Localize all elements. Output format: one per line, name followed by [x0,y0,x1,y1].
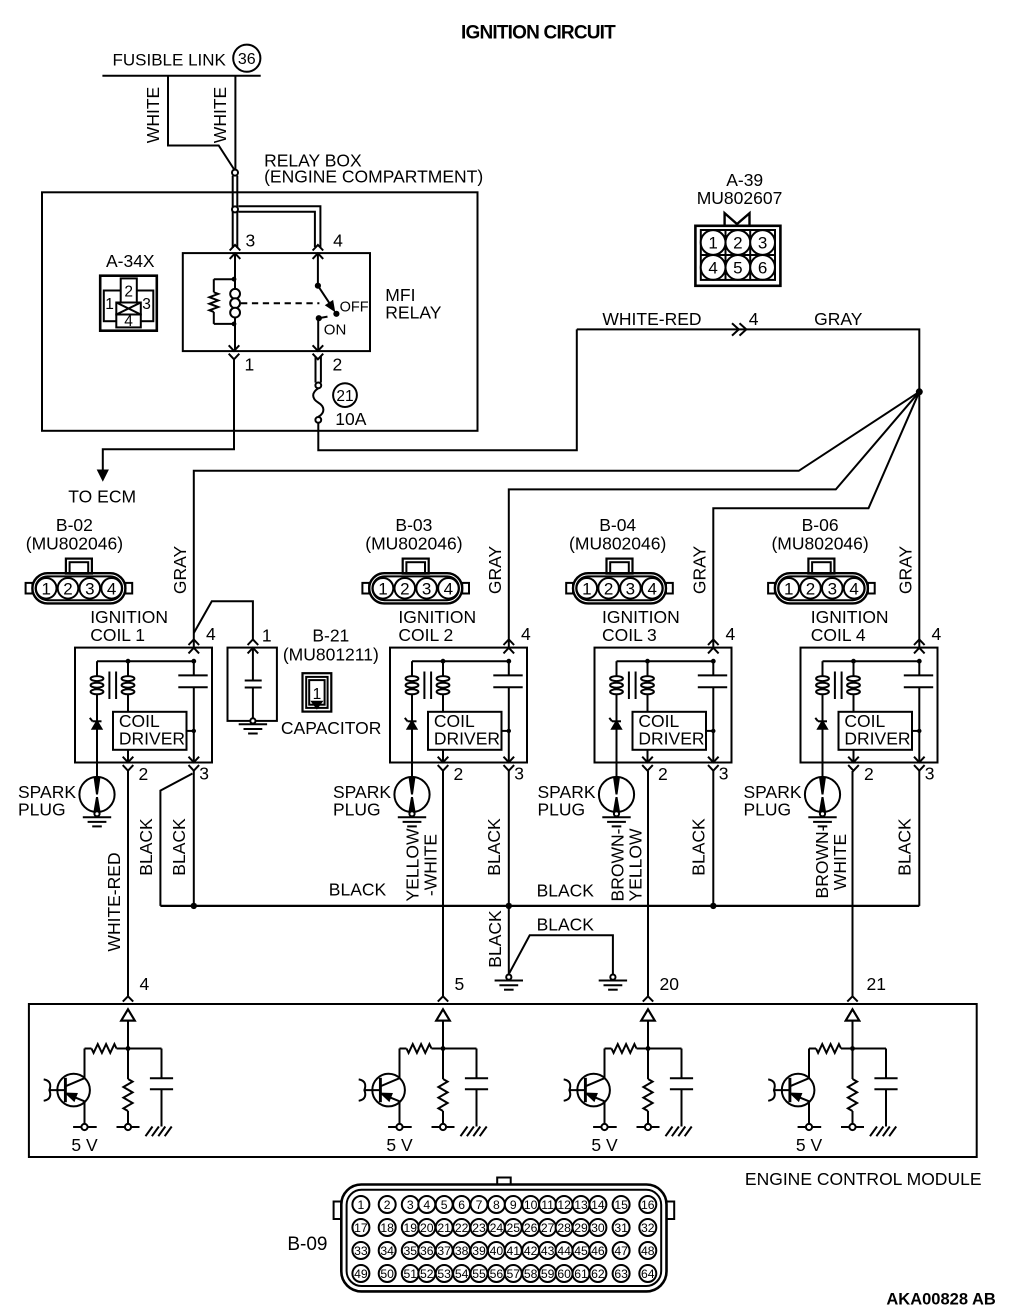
driver ground stub coil 2 [502,730,509,732]
ground wire coil 2 pin 3 [508,771,510,906]
svg-text:4: 4 [444,579,453,598]
svg-text:YELLOW: YELLOW [403,828,423,901]
svg-text:2: 2 [124,284,133,301]
svg-text:1: 1 [105,296,114,313]
filter capacitor C1 [161,1049,163,1079]
svg-text:CAPACITOR: CAPACITOR [281,718,381,738]
fuse circled 21 [333,383,357,407]
spark plug 2 [411,763,413,779]
svg-text:3: 3 [407,1198,414,1212]
svg-text:AKA00828 AB: AKA00828 AB [886,1291,996,1309]
relay resistor [214,278,234,280]
gray feed to coil 2 [509,392,920,649]
svg-text:BLACK: BLACK [329,880,387,900]
svg-text:2: 2 [454,764,464,784]
svg-text:4: 4 [333,231,343,251]
svg-text:PLUG: PLUG [744,799,792,819]
svg-text:50: 50 [380,1267,394,1281]
transformer T1 primary [96,661,98,677]
connector A-34X icon [100,276,157,331]
ground bus BLACK [160,905,919,907]
svg-text:1: 1 [784,579,793,598]
ground wire coil 3 pin 3 [712,771,714,906]
transformer T3 core [628,672,630,700]
transformer T4 core [834,672,836,700]
driver ground stub coil 4 [912,730,919,732]
svg-text:GRAY: GRAY [170,546,190,595]
svg-text:IGNITION: IGNITION [811,607,889,627]
capacitor C1 [252,648,254,681]
svg-text:WHITE: WHITE [143,87,163,143]
chassis ground 1 [146,1127,153,1137]
pull resistor R3 [647,1049,649,1080]
connector side tabs [26,583,33,594]
svg-text:42: 42 [524,1244,538,1258]
spark plug 3 [616,763,618,779]
wire coil 1 pin 2 to ECM [127,771,129,996]
spark plug 4 [822,763,824,779]
svg-text:WHITE-RED: WHITE-RED [602,309,701,329]
svg-text:36: 36 [238,51,256,68]
svg-text:3: 3 [85,579,94,598]
svg-text:(MU802046): (MU802046) [569,533,666,553]
ground symbol right [610,975,615,980]
svg-text:2: 2 [806,579,815,598]
svg-text:2: 2 [733,234,742,253]
ignition coil 4 box [801,648,938,763]
svg-text:IGNITION CIRCUIT: IGNITION CIRCUIT [461,23,616,44]
connector pins 1-4 [577,578,598,599]
svg-text:44: 44 [557,1244,571,1258]
svg-text:48: 48 [641,1244,655,1258]
ECM cell 2 wiring [442,1021,444,1049]
transformer T1 core [108,672,110,700]
svg-text:(MU802046): (MU802046) [771,533,868,553]
zener diode coil 3 [612,720,621,722]
svg-text:1: 1 [245,355,255,375]
svg-text:58: 58 [524,1267,538,1281]
svg-text:3: 3 [626,579,635,598]
svg-text:4: 4 [423,1198,430,1212]
svg-text:59: 59 [541,1267,555,1281]
transformer T3 primary [616,661,618,677]
svg-text:11: 11 [541,1198,554,1212]
svg-text:15: 15 [614,1198,628,1212]
wire WHITE left [168,76,234,170]
svg-text:OFF: OFF [340,299,369,315]
filter capacitor C2 [476,1049,478,1079]
svg-text:BLACK: BLACK [485,910,505,968]
capacitor in coil 4 [918,661,920,675]
connector bullet [232,170,238,176]
double-line wire to pin 3 [232,176,234,248]
svg-text:5: 5 [733,259,742,278]
transistor Q4 [782,1074,815,1107]
relay pin 4 [313,245,324,259]
svg-text:1: 1 [41,579,50,598]
svg-text:25: 25 [507,1221,521,1235]
coil 1 pin 2 [127,750,129,763]
gray feed to coil 4 [918,392,920,648]
svg-text:62: 62 [591,1267,605,1281]
svg-text:3: 3 [925,764,935,784]
svg-text:-WHITE: -WHITE [421,834,441,896]
feed wire WHITE-RED/GRAY [577,329,920,391]
svg-text:A-34X: A-34X [106,251,155,271]
ignition coil 1 box [75,648,212,763]
svg-text:DRIVER: DRIVER [119,729,185,749]
coil driver U2 box [428,712,502,750]
svg-text:COIL 4: COIL 4 [811,625,866,645]
gray feed to coil 3 [713,392,919,648]
relay coil [230,289,240,299]
branch to second ground [509,935,613,974]
coil 2 pin 3 [504,757,515,771]
svg-text:PLUG: PLUG [538,799,586,819]
svg-text:18: 18 [380,1221,394,1235]
coil driver U1 box [113,712,187,750]
svg-text:20: 20 [660,974,680,994]
svg-text:10A: 10A [335,409,366,429]
pull resistor R2 [442,1049,444,1080]
svg-text:BLACK: BLACK [537,881,595,901]
ground wire coil 1 pin 3 [193,771,195,906]
junction circle [232,206,238,212]
svg-text:21: 21 [867,974,886,994]
svg-text:B-06: B-06 [802,515,839,535]
svg-text:61: 61 [574,1267,588,1281]
svg-text:54: 54 [455,1267,469,1281]
ECM cell 4 wiring [852,1021,854,1049]
svg-text:46: 46 [591,1244,605,1258]
svg-text:56: 56 [490,1267,504,1281]
connector pins 1-4 [778,578,799,599]
filter capacitor C4 [885,1049,887,1079]
svg-text:36: 36 [420,1244,434,1258]
svg-text:5 V: 5 V [71,1135,98,1155]
connector side tabs [362,583,369,594]
transformer T4 secondary [853,661,855,677]
svg-text:3: 3 [719,764,729,784]
svg-text:60: 60 [557,1267,571,1281]
wire fuse to feed riser [318,329,577,450]
svg-text:3: 3 [828,579,837,598]
connector body [32,573,125,603]
connector side tabs [566,583,573,594]
double-line branch to pin 4 [239,206,321,247]
svg-text:40: 40 [490,1244,504,1258]
svg-text:64: 64 [641,1267,655,1281]
coil 4 pin 2 [853,750,855,763]
relay pin 1 [229,345,240,359]
svg-text:4: 4 [932,624,942,644]
svg-text:9: 9 [510,1198,517,1212]
driver ground stub coil 1 [187,730,194,732]
connector top tab [403,559,429,574]
svg-text:GRAY: GRAY [814,309,863,329]
wire coil 4 pin 2 to ECM [852,771,854,996]
svg-text:DRIVER: DRIVER [844,729,910,749]
connector B-09 side tabs [334,1202,342,1220]
svg-text:26: 26 [524,1221,538,1235]
svg-text:24: 24 [490,1221,504,1235]
coil 4 pin 3 [914,757,925,771]
zener diode coil 4 [818,720,827,722]
ECM input triangle 2 [436,1009,450,1020]
relay pin 3 [230,245,241,259]
svg-text:45: 45 [574,1244,588,1258]
svg-text:1: 1 [378,579,387,598]
coil 1 pin 4 [189,639,200,653]
relay pin 2 [313,345,324,359]
svg-text:FUSIBLE LINK: FUSIBLE LINK [113,51,227,70]
svg-text:(MU802046): (MU802046) [26,533,123,553]
svg-text:BLACK: BLACK [136,818,156,876]
connector body [573,573,666,603]
connector pins 1-4 [373,578,394,599]
svg-text:COIL 1: COIL 1 [90,625,145,645]
svg-text:12: 12 [557,1198,571,1212]
svg-text:4: 4 [107,579,116,598]
svg-text:2: 2 [384,1198,391,1212]
svg-text:51: 51 [404,1267,418,1281]
svg-text:GRAY: GRAY [895,546,915,595]
svg-text:BLACK: BLACK [484,818,504,876]
svg-text:1: 1 [262,626,272,646]
coil 3 internal node [617,660,714,662]
svg-text:B-02: B-02 [56,515,93,535]
svg-text:B-21: B-21 [312,626,349,646]
svg-text:33: 33 [354,1244,368,1258]
svg-text:2: 2 [658,764,668,784]
wire coil 2 pin 2 to ECM [442,771,444,996]
svg-text:34: 34 [380,1244,394,1258]
capacitor in coil 1 [193,661,195,675]
svg-text:IGNITION: IGNITION [602,607,680,627]
svg-text:7: 7 [476,1198,483,1212]
svg-text:21: 21 [437,1221,451,1235]
svg-text:4: 4 [206,624,216,644]
svg-text:4: 4 [849,579,858,598]
engine control module box [29,1004,977,1157]
svg-text:GRAY: GRAY [485,546,505,595]
svg-text:IGNITION: IGNITION [90,607,168,627]
svg-text:3: 3 [514,764,524,784]
connector top tab [808,559,834,574]
svg-text:2: 2 [333,355,343,375]
ignition coil 3 box [595,648,732,763]
svg-text:WHITE: WHITE [830,834,850,890]
svg-text:1: 1 [313,686,322,703]
svg-text:5 V: 5 V [796,1135,823,1155]
svg-text:31: 31 [614,1221,628,1235]
coil driver U3 box [633,712,707,750]
svg-text:17: 17 [354,1221,368,1235]
svg-text:IGNITION: IGNITION [398,607,476,627]
svg-text:38: 38 [455,1244,469,1258]
svg-text:49: 49 [354,1267,368,1281]
svg-text:B-03: B-03 [395,515,432,535]
svg-text:4: 4 [140,974,150,994]
svg-text:10: 10 [524,1198,538,1212]
connector body [775,573,868,603]
svg-text:2: 2 [864,764,874,784]
svg-text:23: 23 [472,1221,486,1235]
transformer T3 secondary [647,661,649,677]
svg-text:GRAY: GRAY [689,546,709,595]
svg-text:BLACK: BLACK [537,914,595,934]
gray feed to coil 1 [194,392,920,648]
svg-text:3: 3 [246,231,256,251]
fusible link bus bar [102,75,260,77]
connector side tabs [768,583,775,594]
svg-text:1: 1 [708,234,717,253]
svg-text:4: 4 [708,259,717,278]
pull resistor R4 [852,1049,854,1080]
ignition coil 2 box [390,648,527,763]
wire WHITE right [234,76,236,170]
ECM input triangle 3 [641,1009,655,1020]
svg-text:A-39: A-39 [726,170,763,190]
svg-text:3: 3 [199,764,209,784]
svg-text:30: 30 [591,1221,605,1235]
wire to capacitor B-21 [194,601,253,639]
capacitor B-21 pin 1 [248,639,259,653]
coil 3 pin 4 [708,639,719,653]
capacitor B-21 box [228,648,277,721]
chassis ground 2 [461,1127,468,1137]
svg-text:2: 2 [63,579,72,598]
wire coil 3 pin 2 to ECM [647,771,649,996]
relay coil wire [234,253,236,289]
svg-text:37: 37 [437,1244,451,1258]
svg-text:8: 8 [493,1198,500,1212]
svg-text:DRIVER: DRIVER [638,729,704,749]
zener diode coil 2 [408,720,417,722]
svg-text:19: 19 [404,1221,418,1235]
svg-text:35: 35 [404,1244,418,1258]
svg-text:4: 4 [726,624,736,644]
svg-text:1: 1 [582,579,591,598]
svg-text:21: 21 [336,388,353,405]
svg-text:55: 55 [472,1267,486,1281]
svg-text:41: 41 [507,1244,521,1258]
svg-text:BLACK: BLACK [169,818,189,876]
connector B-09 pins [352,1196,369,1213]
svg-text:5: 5 [455,974,465,994]
svg-text:14: 14 [591,1198,605,1212]
svg-text:COIL 2: COIL 2 [398,625,453,645]
svg-text:PLUG: PLUG [333,799,381,819]
capacitor in coil 2 [508,661,510,675]
svg-text:43: 43 [541,1244,555,1258]
svg-text:5: 5 [441,1198,448,1212]
svg-text:1: 1 [358,1198,365,1212]
svg-text:MU802607: MU802607 [697,188,783,208]
svg-text:ENGINE CONTROL MODULE: ENGINE CONTROL MODULE [745,1169,982,1189]
svg-text:WHITE: WHITE [210,87,230,143]
svg-text:DRIVER: DRIVER [434,729,500,749]
transistor Q1 [57,1074,90,1107]
svg-text:BLACK: BLACK [688,818,708,876]
chassis ground 4 [870,1127,877,1137]
fuse element [315,383,321,389]
svg-text:3: 3 [142,296,151,313]
svg-text:57: 57 [507,1267,521,1281]
ECM cell 1 wiring [127,1021,129,1049]
capacitor in coil 3 [712,661,714,675]
connector body [369,573,462,603]
zener diode coil 1 [93,720,102,722]
ECM cell 3 wiring [647,1021,649,1049]
svg-text:2: 2 [604,579,613,598]
transformer T2 core [423,672,425,700]
svg-text:(MU802046): (MU802046) [365,533,462,553]
coil 4 internal node [823,660,920,662]
transformer T2 secondary [442,661,444,677]
svg-text:63: 63 [614,1267,628,1281]
coil 2 pin 2 [442,750,444,763]
svg-text:3: 3 [758,234,767,253]
svg-text:28: 28 [557,1221,571,1235]
connector pins 1-4 [36,578,57,599]
wire marker chevrons [732,323,746,335]
relay box [42,192,478,430]
svg-text:(ENGINE COMPARTMENT): (ENGINE COMPARTMENT) [264,166,483,186]
svg-text:B-04: B-04 [599,515,636,535]
svg-text:YELLOW: YELLOW [626,828,646,901]
svg-text:COIL 3: COIL 3 [602,625,657,645]
pull resistor R1 [127,1049,129,1080]
svg-text:47: 47 [614,1244,628,1258]
transformer T4 primary [822,661,824,677]
svg-text:52: 52 [420,1267,434,1281]
wire relay pin 1 to ECM arrow [103,359,234,470]
svg-text:RELAY: RELAY [385,303,441,323]
svg-text:WHITE-RED: WHITE-RED [104,852,124,951]
fusible link circled 36 [233,45,260,72]
transformer T2 primary [411,661,413,677]
coil 3 pin 3 [708,757,719,771]
svg-text:5 V: 5 V [386,1135,413,1155]
svg-text:4: 4 [124,313,133,330]
svg-text:20: 20 [420,1221,434,1235]
coil 1 pin 3 [189,757,200,771]
coil 3 pin 2 [647,750,649,763]
svg-text:29: 29 [574,1221,588,1235]
svg-text:39: 39 [472,1244,486,1258]
svg-text:22: 22 [455,1221,469,1235]
ground drop wire [508,906,510,975]
svg-text:B-09: B-09 [287,1234,327,1255]
coil 2 pin 4 [504,639,515,653]
svg-text:BROWN-: BROWN- [812,825,832,898]
svg-text:3: 3 [422,579,431,598]
svg-text:4: 4 [749,309,759,329]
ECM input triangle 4 [846,1009,860,1020]
connector top tab [66,559,92,574]
connector B-09 body [497,1178,511,1188]
coil 2 internal node [412,660,509,662]
connector A-39 icon [695,226,780,286]
ground symbol left [506,975,511,980]
feed junction dot [916,388,923,395]
svg-text:53: 53 [437,1267,451,1281]
coil 1 internal node [97,660,194,662]
svg-text:BROWN-: BROWN- [608,828,628,901]
ground B-21 [250,718,255,723]
chassis ground 3 [666,1127,673,1137]
